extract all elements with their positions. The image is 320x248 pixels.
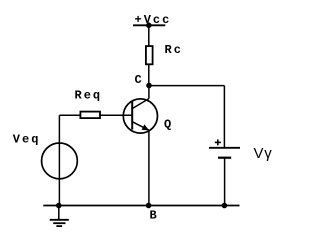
svg-text:Vγ: Vγ — [254, 145, 273, 162]
svg-text:Req: Req — [75, 88, 103, 102]
svg-text:Q: Q — [164, 118, 173, 132]
svg-text:Rc: Rc — [165, 43, 183, 57]
svg-text:Veq: Veq — [13, 133, 41, 147]
svg-text:C: C — [135, 73, 144, 87]
svg-text:B: B — [150, 209, 159, 223]
